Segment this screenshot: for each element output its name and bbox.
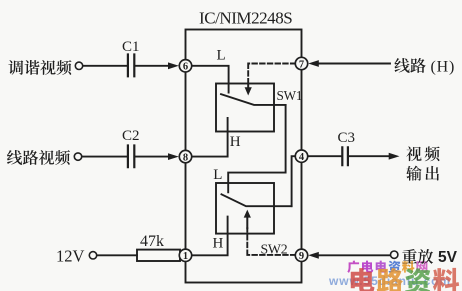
svg-text:L: L [217,47,226,63]
SW2 lever (common, set to L) [222,194,292,206]
SW2 control arrow shaft [246,217,248,228]
switch SW1 box [216,84,274,132]
wire playback 5V to pin 9 [318,254,390,256]
capacitor C2 [128,146,134,168]
svg-text:47k: 47k [140,233,164,250]
svg-text:C1: C1 [122,39,140,55]
terminal line video [74,153,81,160]
terminal playback 5V [391,251,398,258]
SW1 control arrow shaft [247,84,249,89]
pin 4 [295,150,307,163]
pin 7 [295,57,307,70]
video out label line2 [406,166,439,181]
arrowhead video output [389,153,400,160]
wire pin 4 to C3 [308,155,342,157]
arrowhead into pin 9 [308,252,319,259]
svg-text:1: 1 [183,251,188,262]
svg-text:4: 4 [299,152,305,163]
arrowhead into pin 7 [308,60,319,67]
tuner video label [8,60,71,75]
dashed control line pin 7 to SW1 [248,64,295,84]
SW2 control arrowhead [244,210,251,218]
svg-text:9: 9 [299,251,304,262]
wire C1 to pin 6 [135,65,170,67]
svg-text:8: 8 [183,152,188,163]
dashed control line pin 9 to SW2 [247,228,295,255]
terminal 12V [89,252,96,259]
SW1 lever (common, set to L) [221,94,286,105]
svg-text:7: 7 [299,59,304,70]
terminal tuner video [75,62,82,69]
capacitor C1 [128,55,134,77]
SW1 control arrowhead [245,87,252,95]
wire SW2 common to pin 4 [292,156,296,206]
SW1 H contact wire to pin 8 [192,118,228,157]
svg-text:SW1: SW1 [277,88,303,103]
svg-text:L: L [213,167,222,183]
wire pin7 control input [318,63,390,65]
video out label line1 [406,146,439,161]
switch SW2 box [216,183,274,234]
arrowhead into pin 8 [168,153,179,160]
svg-text:H: H [213,236,224,252]
svg-text:C2: C2 [122,128,140,144]
pin 9 [295,249,307,262]
wire C2 to pin 8 [135,156,170,158]
capacitor C3 [342,147,348,165]
svg-text:IC/NIM2248S: IC/NIM2248S [199,9,292,28]
pin 6 [179,60,191,73]
IC U1 box [186,30,302,283]
SW2 H contact wire to pin 1 [192,217,228,256]
svg-text:C3: C3 [338,130,356,146]
svg-text:12V: 12V [56,247,85,266]
svg-text:H: H [230,134,241,150]
wire line-video input to C2 [82,156,127,158]
playback label [402,249,433,264]
pin 1 [179,249,191,262]
wire 12V to resistor [97,254,137,256]
watermark big color glyphs [351,268,459,291]
svg-text:6: 6 [183,62,188,73]
line video label [7,150,70,165]
wire tuner input to C1 [83,65,127,67]
arrowhead into pin 6 [168,62,179,69]
svg-text:SW2: SW2 [261,242,288,257]
watermark site name row [347,260,427,272]
wire C3 to output arrow [348,155,389,157]
svg-text:(H): (H) [431,58,456,75]
line control label [394,58,425,73]
svg-text:5V: 5V [438,249,458,266]
pin 8 [179,150,191,163]
wire pin 6 to SW1 L contact [192,66,229,93]
wire SW1 common to SW2 L contact [228,105,285,192]
resistor 47k body [137,250,180,261]
